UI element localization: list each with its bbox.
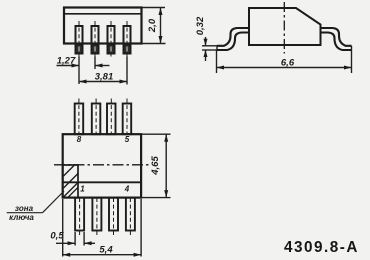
svg-text:4: 4 — [124, 185, 130, 194]
dimension 2,0 (front view, right) — [142, 8, 166, 44]
svg-text:3,81: 3,81 — [95, 72, 114, 83]
dimension 5,4 (plan view, bottom) — [63, 199, 141, 257]
pin 7 (plan top row) — [92, 99, 101, 135]
svg-text:4309.8-A: 4309.8-A — [284, 239, 359, 256]
svg-text:8: 8 — [77, 135, 82, 144]
dimension 3,81 (front view) — [79, 57, 127, 85]
dimension 0,32 (side view, left) — [195, 16, 217, 61]
package body (side view) — [249, 8, 321, 45]
pin 4 (plan bottom row) — [126, 198, 135, 236]
pin 4 (front view) — [124, 21, 131, 57]
pin 1 (front view) — [76, 21, 83, 57]
svg-text:5,4: 5,4 — [99, 245, 113, 256]
svg-text:0,32: 0,32 — [195, 16, 206, 35]
vertical center line (side view) — [283, 2, 285, 54]
pin 3 (plan bottom row) — [109, 198, 118, 236]
package body outline (front view) — [64, 8, 142, 44]
pin 2 (front view) — [92, 21, 99, 57]
pin 8 (plan top row) — [75, 99, 84, 135]
svg-text:1: 1 — [80, 185, 85, 194]
svg-text:5: 5 — [125, 135, 130, 144]
svg-text:1,27: 1,27 — [57, 56, 76, 67]
svg-text:зона: зона — [15, 204, 34, 213]
key zone leader and label — [7, 191, 64, 213]
pin 5 (plan top row) — [123, 99, 132, 135]
body step line — [64, 13, 142, 15]
left gull-wing lead (side view) — [217, 28, 250, 46]
right gull-wing lead (side view) — [320, 28, 352, 46]
pin 6 (plan top row) — [107, 99, 116, 135]
dimension 0,5 (plan view, bottom-left) — [50, 231, 95, 246]
pin tips below body (front view) — [76, 45, 131, 54]
svg-text:4,65: 4,65 — [150, 156, 161, 176]
svg-text:ключа: ключа — [9, 213, 34, 222]
key zone hatched box (plan view) — [63, 165, 78, 198]
dimension 6,6 (side view, bottom) — [217, 50, 352, 73]
svg-text:6,6: 6,6 — [281, 58, 295, 69]
inner ledge line — [63, 181, 141, 183]
pin 2 (plan bottom row) — [92, 198, 101, 236]
dimension 4,65 (plan view, right) — [141, 134, 170, 197]
dimension 1,27 (front view) — [57, 56, 110, 85]
pin 3 (front view) — [108, 21, 115, 57]
svg-text:2,0: 2,0 — [147, 18, 158, 33]
horizontal center line (plan view) — [54, 164, 149, 166]
package body outline (plan view) — [63, 134, 141, 197]
pin 1 (plan bottom row) — [75, 198, 84, 236]
